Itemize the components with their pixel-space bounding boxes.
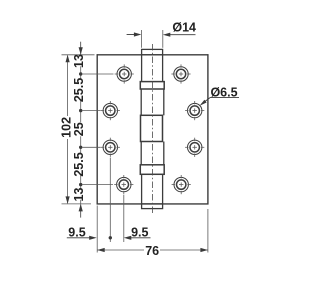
label O6.5 leader bbox=[210, 97, 239, 99]
svg-text:25: 25 bbox=[72, 122, 86, 136]
dimension 9.5 left bbox=[67, 237, 91, 239]
dimension 76 arrows bbox=[97, 248, 105, 252]
dimension 102 line bbox=[67, 56, 69, 204]
ext hole col inner down bbox=[109, 158, 111, 243]
svg-text:9.5: 9.5 bbox=[68, 225, 85, 239]
ext right edge down bbox=[207, 209, 209, 253]
chain dimension line bbox=[80, 42, 82, 218]
hole R1 bbox=[171, 64, 190, 83]
knuckle segment 2 bbox=[140, 89, 142, 115]
svg-text:Ø14: Ø14 bbox=[172, 20, 196, 34]
chain bottom arrow bbox=[79, 204, 83, 212]
ext hole row3 bbox=[83, 146, 101, 148]
hole R2 bbox=[185, 101, 204, 120]
dimension 76 line bbox=[97, 249, 208, 251]
svg-text:76: 76 bbox=[145, 244, 159, 258]
knuckle barrel bbox=[140, 49, 164, 208]
barrel bottom cap bbox=[142, 204, 163, 209]
barrel centerline bbox=[151, 44, 153, 214]
screw holes bbox=[101, 64, 205, 194]
hole L4 bbox=[114, 175, 133, 194]
ext top edge bbox=[62, 54, 95, 56]
bottom chain dot bbox=[109, 236, 112, 239]
chain label 25 bbox=[72, 122, 86, 136]
leaf left edge bbox=[96, 54, 98, 204]
chain label 25.5 lower bbox=[72, 152, 86, 176]
ext bottom edge bbox=[62, 203, 92, 205]
knuckle segment 4 bbox=[140, 142, 142, 165]
chain label 25.5 upper bbox=[72, 78, 86, 102]
dimension 9.5 middle bbox=[129, 237, 151, 239]
leaf top edge bbox=[97, 54, 209, 56]
ext hole col outer down bbox=[123, 195, 125, 242]
dimension O14 right arrow and leader bbox=[168, 34, 196, 36]
knuckle segment 5 bbox=[141, 174, 143, 204]
svg-text:25.5: 25.5 bbox=[72, 152, 86, 176]
svg-text:Ø6.5: Ø6.5 bbox=[210, 85, 237, 99]
bearing ring 2 bbox=[140, 165, 164, 175]
hinge leaf outline (left and right leaves) bbox=[97, 54, 209, 204]
dimension O14 extension lines bbox=[141, 30, 162, 48]
svg-text:25.5: 25.5 bbox=[72, 78, 86, 102]
dimension 102 arrows bbox=[66, 55, 70, 63]
svg-text:9.5: 9.5 bbox=[131, 225, 148, 239]
svg-text:13: 13 bbox=[72, 188, 86, 202]
ext hole row2 bbox=[83, 110, 101, 112]
barrel top cap bbox=[142, 49, 163, 54]
chain label 13 bottom bbox=[72, 188, 86, 202]
ext hole row4 bbox=[83, 184, 114, 186]
chain label 13 top bbox=[72, 54, 86, 68]
extension lines left side bbox=[62, 55, 114, 204]
dimension O14 left arrow bbox=[127, 34, 136, 36]
svg-text:13: 13 bbox=[72, 54, 86, 68]
chain junction dots bbox=[79, 72, 82, 75]
hole R3 bbox=[185, 138, 204, 157]
dimension 102 text bbox=[59, 117, 73, 138]
ext left edge down bbox=[96, 206, 98, 253]
hole L1 bbox=[115, 64, 134, 83]
bottom extension lines bbox=[97, 158, 208, 253]
chain top arrow bbox=[79, 47, 83, 55]
leaf right edge bbox=[207, 54, 209, 204]
hole L2 bbox=[101, 101, 120, 120]
ext hole row1 bbox=[83, 73, 114, 75]
hole L3 bbox=[101, 138, 120, 157]
knuckle segment 3 bbox=[141, 115, 163, 141]
bearing ring 1 bbox=[140, 82, 164, 89]
hole R4 bbox=[172, 175, 191, 194]
leaf bottom edge bbox=[97, 203, 209, 205]
knuckle segment 1 bbox=[141, 55, 143, 82]
